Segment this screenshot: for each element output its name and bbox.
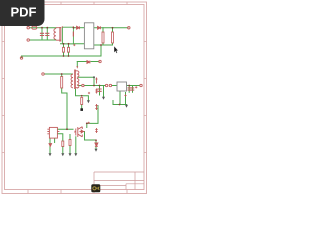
svg-text:PDF: PDF <box>11 5 37 20</box>
